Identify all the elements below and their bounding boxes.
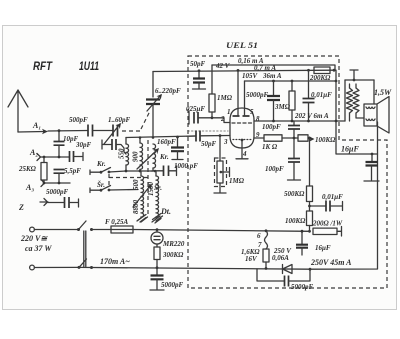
capacitor 1000pF [153, 170, 163, 172]
svg-text:202 V 6m A: 202 V 6m A [294, 112, 329, 120]
trimmer second section [102, 140, 111, 149]
resistor 1M osc [211, 65, 213, 94]
svg-text:Šr.: Šr. [97, 181, 105, 189]
svg-text:1500: 1500 [147, 182, 155, 197]
wire A1 [48, 130, 87, 133]
tube plate bars [233, 115, 250, 117]
svg-text:200Ω /1W: 200Ω /1W [312, 220, 343, 228]
chassis hatch marks [138, 215, 148, 223]
svg-text:1K Ω: 1K Ω [262, 143, 278, 151]
svg-text:1,5W: 1,5W [374, 88, 392, 97]
capacitor 5000pF mains [156, 268, 158, 275]
primary winding [347, 88, 353, 113]
svg-text:A₁: A₁ [32, 121, 41, 130]
switch gang dashed linkage [108, 174, 110, 188]
wire junction row [126, 170, 153, 172]
output transformer [350, 70, 358, 80]
coil 900 [139, 138, 141, 144]
svg-text:5000pF: 5000pF [291, 283, 314, 291]
svg-text:100KΩ: 100KΩ [285, 217, 306, 225]
supply rail A [212, 65, 335, 70]
svg-text:100pF: 100pF [265, 165, 284, 173]
resistor 200K [314, 67, 330, 74]
svg-text:16μF: 16μF [315, 244, 331, 252]
svg-text:42 V: 42 V [215, 62, 231, 70]
anode wire 202V [254, 120, 345, 122]
svg-text:1MΩ: 1MΩ [229, 177, 245, 185]
B+ vertical right [336, 121, 378, 154]
coil 500/8800 [140, 171, 142, 176]
svg-text:900: 900 [132, 151, 140, 162]
capacitor 50pF grid [187, 135, 196, 137]
svg-text:0,06A: 0,06A [272, 254, 289, 262]
tube UEL51 envelope [230, 108, 254, 148]
svg-text:8: 8 [256, 115, 260, 123]
heater wire [133, 230, 310, 232]
svg-text:UEL 51: UEL 51 [226, 41, 258, 50]
resistor 300K [156, 244, 158, 247]
svg-text:1MΩ: 1MΩ [217, 94, 233, 102]
svg-text:Dt.: Dt. [160, 207, 171, 216]
svg-text:5000pF: 5000pF [246, 91, 269, 99]
svg-text:A₃: A₃ [25, 183, 34, 192]
svg-text:50pF: 50pF [190, 60, 206, 68]
svg-text:5: 5 [250, 108, 254, 116]
dotted AVC line [188, 130, 228, 132]
resistor 1.6K [263, 249, 269, 262]
wire [93, 130, 113, 132]
svg-text:160pF: 160pF [157, 138, 176, 146]
capacitor 16uF cathode [301, 231, 303, 244]
svg-text:550: 550 [118, 148, 126, 159]
svg-text:250V 45m A: 250V 45m A [310, 258, 352, 267]
wire 42V rail [153, 70, 334, 71]
svg-text:36m A: 36m A [262, 72, 282, 80]
svg-text:RFT: RFT [33, 59, 53, 73]
tube plate leads [238, 70, 245, 116]
svg-text:5000pF: 5000pF [46, 188, 69, 196]
svg-text:500pF: 500pF [69, 116, 88, 124]
svg-text:F 0,25A: F 0,25A [105, 218, 129, 226]
svg-text:0,01μF: 0,01μF [322, 193, 343, 201]
chassis hatch [152, 216, 161, 223]
triode output wire 1K [254, 137, 264, 139]
svg-text:Kr.: Kr. [96, 160, 106, 168]
svg-text:8800: 8800 [132, 200, 140, 215]
switch upper [77, 228, 80, 231]
svg-text:6: 6 [257, 232, 261, 240]
capacitor 16uF main filter [371, 153, 374, 156]
svg-text:25KΩ: 25KΩ [18, 165, 37, 173]
tube grid dashes [232, 122, 252, 124]
svg-text:300KΩ: 300KΩ [162, 251, 184, 259]
svg-text:6..220pF: 6..220pF [155, 87, 181, 95]
switch arrow Kr [137, 150, 157, 169]
gang linkage dashes [122, 130, 140, 132]
heater return wire [79, 267, 310, 269]
switch linkage shaft [84, 231, 86, 267]
heater barretter squiggle [265, 229, 268, 232]
wire to pin 2 [212, 118, 230, 123]
svg-text:500KΩ: 500KΩ [284, 190, 305, 198]
svg-text:16V: 16V [245, 255, 258, 263]
svg-text:170m A~: 170m A~ [100, 257, 130, 266]
svg-text:1..60pF: 1..60pF [108, 116, 131, 124]
grid leak 1M dotted box [219, 136, 221, 161]
resistor small [298, 135, 308, 141]
svg-text:3MΩ: 3MΩ [274, 103, 291, 111]
rectifier MR220 [156, 230, 158, 232]
capacitor 5000pF [65, 197, 70, 208]
svg-text:1000 pF: 1000 pF [174, 162, 198, 170]
mains terminal upper [30, 227, 35, 232]
coil (osc) [153, 144, 156, 168]
svg-text:4: 4 [242, 150, 247, 158]
svg-text:3: 3 [223, 138, 228, 146]
capacitor 5000pF bypass loop [257, 269, 284, 281]
svg-text:105V: 105V [242, 72, 259, 80]
svg-text:Z: Z [18, 203, 24, 212]
svg-text:200KΩ: 200KΩ [309, 74, 331, 82]
svg-text:50pF: 50pF [201, 140, 217, 148]
dashed enclosure box [188, 56, 387, 288]
svg-text:1U11: 1U11 [79, 59, 99, 73]
arrow 100K [309, 136, 315, 142]
switch lower [78, 266, 81, 269]
svg-text:5000pF: 5000pF [161, 281, 184, 289]
svg-text:Kr.: Kr. [159, 153, 169, 161]
svg-text:A₂: A₂ [29, 148, 38, 157]
svg-text:1: 1 [227, 108, 231, 116]
svg-text:16μF: 16μF [341, 145, 359, 154]
wire A2 [41, 156, 70, 158]
svg-text:500: 500 [132, 179, 140, 190]
switch stubs [90, 170, 101, 175]
mains terminal lower [30, 265, 35, 270]
chassis hatch [137, 215, 146, 222]
antenna [8, 90, 28, 132]
svg-text:100KΩ: 100KΩ [315, 136, 336, 144]
svg-text:220 V≅: 220 V≅ [20, 234, 48, 243]
tube cathode dots [233, 139, 251, 141]
svg-text:MR220: MR220 [162, 240, 185, 248]
coil 550 [125, 138, 127, 145]
switch arrow Sr [133, 186, 150, 207]
tube cathode lead [241, 139, 244, 142]
svg-text:30pF: 30pF [75, 141, 92, 149]
svg-text:ca 37 W: ca 37 W [25, 244, 52, 253]
svg-text:5,5pF: 5,5pF [64, 167, 81, 175]
secondary winding [353, 88, 359, 113]
wire [34, 229, 78, 231]
coil grid wire [126, 136, 195, 138]
svg-text:100pF: 100pF [262, 123, 281, 131]
svg-text:0,7 m A: 0,7 m A [254, 64, 276, 72]
wire A3 [45, 182, 71, 184]
node A1 arrow [18, 131, 44, 134]
coil Dt choke [151, 171, 156, 176]
